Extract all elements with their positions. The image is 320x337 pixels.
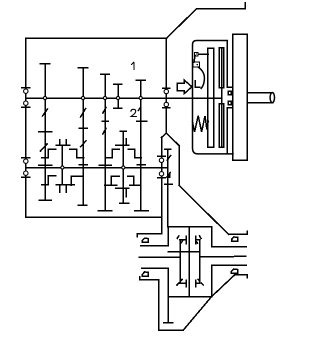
shaft S2 bottom bar	[78, 204, 86, 206]
bearing circle left top-2	[24, 101, 28, 105]
shaft S2 junction	[81, 96, 84, 99]
shaft S1 junction	[43, 96, 46, 99]
axle left brake line	[142, 267, 168, 269]
shaft S5 top bar	[136, 79, 145, 81]
key dot lower	[231, 102, 233, 104]
release lever curve	[198, 67, 204, 88]
axle right tube bottom diagonal	[212, 275, 235, 297]
output shaft bottom line	[247, 102, 273, 104]
release pivot dot	[196, 53, 197, 54]
lower boxes bottom line	[168, 296, 211, 298]
diagonal frame to clutch	[167, 9, 197, 38]
bearing bar top x166	[163, 87, 170, 89]
axle right top line	[212, 246, 247, 248]
diff shelf line	[168, 251, 200, 253]
shaft S1 vertical	[44, 64, 46, 201]
cluster2 side tick upper	[125, 139, 127, 146]
drum vertical upper	[226, 41, 228, 88]
cluster1 top bar	[56, 144, 70, 146]
left anchor flag bottom	[142, 272, 148, 276]
bevel mark UL stub	[180, 239, 186, 241]
middle wall	[188, 227, 190, 297]
cluster1 bottom bar	[56, 184, 74, 186]
label 2	[131, 109, 136, 116]
cluster1 step LR	[71, 176, 83, 185]
gear bar S1 low	[39, 164, 52, 166]
bevel mark UR stub	[196, 239, 200, 241]
bevel mark LL tick	[185, 280, 187, 287]
cage left vertical	[179, 240, 181, 284]
cluster2 top T bar	[120, 130, 126, 132]
final drive shaft vertical	[167, 268, 169, 323]
bevel mark LL slashes	[177, 279, 182, 285]
shaft S1 slash upper	[43, 109, 48, 116]
upper box left wall	[167, 227, 169, 246]
bearing bar bottom x166	[163, 107, 170, 109]
bearing tick left low	[22, 157, 30, 159]
bearing circle left top-1	[24, 89, 28, 93]
shaft S5 slash	[138, 108, 141, 114]
gear bar S2 low	[79, 164, 87, 166]
bevel mark LR stub	[196, 282, 200, 284]
axle left tube bottom	[140, 277, 159, 280]
axle right tube top	[229, 231, 247, 234]
top right line	[197, 8, 246, 10]
slash x168 lower	[167, 173, 171, 178]
clutch housing	[193, 41, 234, 154]
output shaft vertical x166	[165, 38, 167, 133]
gear bar x168	[165, 183, 173, 185]
pressure plate lower	[219, 104, 224, 148]
gear bar S1 mid	[39, 131, 52, 133]
bevel mark UR tick	[195, 236, 197, 244]
drop housing wall	[158, 280, 160, 330]
shaft S1 slash lower	[41, 144, 48, 151]
stub S4 bottom bar	[114, 107, 122, 109]
long diagonal to axle	[179, 185, 229, 234]
axle left tube top	[137, 234, 161, 237]
shaft S1 bottom bar	[39, 199, 51, 201]
input arrow	[177, 80, 192, 93]
cluster2 step LL	[105, 176, 120, 185]
key square upper	[228, 91, 231, 94]
axle right bottom line	[200, 255, 246, 257]
slash x168 upper	[167, 156, 170, 161]
frame top line	[26, 37, 167, 39]
shaft S3 slash	[103, 107, 106, 113]
cluster1 bottom ticks	[60, 185, 66, 192]
shaft S2 slash upper	[81, 109, 86, 117]
gear bar S3 low	[99, 164, 111, 166]
cluster2 stub bottom bar	[120, 202, 129, 204]
stub S4 junction	[116, 96, 119, 99]
bearing tick branch lower	[158, 177, 166, 179]
pressure plate upper	[219, 48, 224, 88]
second gear shaft x168 top bar	[165, 148, 171, 150]
cage right vertical	[199, 240, 201, 284]
left anchor flag top	[142, 238, 148, 242]
drop housing diagonal	[183, 297, 211, 330]
fork left diagonal	[162, 133, 167, 138]
lower box right wall	[211, 265, 213, 297]
shaft S3 junction	[103, 96, 106, 99]
release pivot square	[195, 52, 199, 55]
axle left mid line	[139, 256, 180, 258]
flywheel block	[233, 34, 247, 160]
drum tab lower	[227, 107, 232, 109]
bearing tick branch upper	[158, 155, 166, 157]
pivot diagonal link	[194, 56, 195, 62]
top right end tick	[244, 3, 246, 9]
pressure plate upper mid line	[221, 48, 223, 88]
frame bottom line	[26, 216, 162, 218]
cluster2 junction	[122, 166, 125, 169]
second gear shaft x168	[167, 149, 169, 227]
bearing circle left low-1	[24, 159, 28, 163]
upper box right wall	[211, 227, 213, 247]
gear bar S2 mid	[79, 127, 87, 129]
axle right tube bottom	[235, 275, 248, 278]
bevel mark LL stub	[179, 282, 186, 284]
lever pivot square	[193, 62, 199, 67]
bearing circle left low-2	[24, 171, 28, 175]
final drive shaft bottom bar	[164, 322, 173, 324]
right anchor flag top	[232, 237, 238, 241]
shaft S3 top bar	[101, 73, 110, 75]
bearing tick left top	[22, 87, 30, 89]
key square lower	[228, 101, 231, 105]
cluster2 stub	[122, 131, 124, 203]
stub S4 top bar	[114, 83, 122, 85]
drum vertical lower	[226, 108, 228, 154]
right anchor flag bottom	[231, 269, 237, 273]
pressure plate lower mid line	[221, 104, 223, 148]
shaft S3 slash lower	[103, 128, 106, 134]
key dot upper	[231, 92, 233, 94]
shaft end cap	[270, 93, 274, 103]
clutch disc A	[208, 48, 214, 147]
gear bar S5 low	[137, 164, 145, 166]
bevel mark LR slashes	[198, 279, 203, 285]
pivot link line	[198, 53, 208, 55]
gear bar S5 upper	[137, 120, 147, 122]
bevel mark UL tick	[185, 236, 187, 244]
cluster1 top ticks	[60, 140, 66, 146]
lever pivot dot	[196, 64, 198, 66]
shaft S5 junction	[139, 96, 142, 99]
shaft S2 top bar	[78, 67, 88, 69]
cluster2 mid bar	[116, 187, 129, 189]
shaft S3 vertical	[104, 74, 106, 211]
fork right diagonal	[166, 133, 179, 146]
lower shaft line	[26, 167, 168, 169]
cluster2 step UL	[106, 149, 119, 158]
bevel mark UR slashes	[196, 236, 201, 243]
bearing circle x166 upper	[164, 89, 168, 93]
bearing circle x166 lower	[164, 102, 168, 106]
frame left vertical (shaft wall)	[25, 38, 27, 217]
shaft S5 vertical	[140, 80, 142, 210]
stub shaft S4	[117, 84, 119, 108]
cluster2 side tick lower	[125, 188, 127, 196]
fork right vertical	[178, 146, 180, 186]
cluster2 step LR	[128, 176, 141, 185]
drum tab upper	[227, 86, 232, 88]
bearing tick left top lower	[22, 106, 30, 108]
shaft S2 vertical	[82, 68, 84, 205]
drop housing bottom	[159, 329, 184, 331]
left branch vertical	[161, 138, 163, 234]
cluster1 stub	[61, 145, 63, 185]
output shaft top line	[247, 92, 273, 94]
hub connector	[221, 88, 223, 104]
cluster2 step UR	[128, 149, 141, 158]
upper shaft line	[26, 97, 222, 99]
shaft S5 bottom bar	[135, 210, 148, 212]
bevel mark UL slashes	[177, 236, 182, 243]
shaft S2 slash lower	[81, 141, 86, 147]
cluster2 top bar	[116, 144, 129, 146]
release bearing hook	[195, 81, 200, 88]
cluster1 junction	[61, 166, 64, 169]
clutch spring	[193, 116, 209, 133]
bearing tick left low lower	[22, 176, 30, 178]
label 1	[132, 62, 134, 69]
gear bar S3 upper	[102, 120, 108, 122]
dot x168	[169, 175, 171, 177]
axle left top line	[141, 245, 169, 247]
bearing circle branch lower	[159, 172, 163, 176]
cluster1 step UR	[70, 149, 84, 158]
cluster1 step UL	[42, 149, 56, 158]
bearing circle branch upper	[159, 158, 163, 162]
upper boxes top line	[168, 226, 211, 228]
axle right brake line	[212, 264, 247, 266]
shaft S1 top bar	[40, 63, 50, 65]
cluster1 step LL	[42, 176, 56, 185]
bevel mark LR tick	[195, 280, 197, 287]
shaft S3 bottom bar	[98, 210, 112, 212]
